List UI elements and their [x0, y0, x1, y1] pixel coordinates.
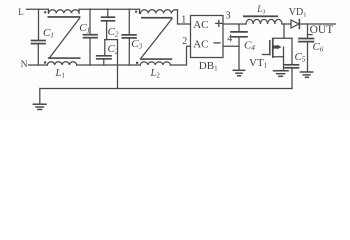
wire L1 diagonal: [50, 18, 80, 58]
diode VD1: [291, 20, 299, 28]
wire bridge pin 4: [223, 45, 239, 47]
polarity dot L2 top: [135, 11, 137, 13]
svg-text:L1: L1: [55, 68, 66, 80]
capacitor C1b (X-cap after choke): [89, 9, 91, 35]
wire N rail between chokes: [77, 64, 141, 66]
node OUT terminal: [308, 34, 313, 36]
source wire: [273, 57, 284, 71]
transformer L2 bottom winding: [140, 62, 170, 65]
wire L3 to diode anode: [282, 23, 291, 25]
ground (VT1 source): [274, 70, 289, 72]
wire N lead: [29, 64, 48, 66]
gate bar: [269, 41, 271, 55]
capacitor C5 (snubber cap): [291, 38, 293, 65]
svg-text:1: 1: [181, 15, 186, 26]
ground (bridge minus): [233, 69, 244, 71]
capacitor C4 (bus cap): [238, 24, 240, 32]
polarity dot L1 top: [44, 11, 46, 13]
svg-text:C2: C2: [108, 26, 119, 39]
capacitor C2b (lower Y-cap): [104, 40, 106, 56]
svg-text:4: 4: [227, 33, 232, 44]
wire earth rail (bottom): [40, 88, 292, 90]
polarity dot L2 bottom: [136, 62, 138, 64]
capacitor C2 (upper Y-cap): [107, 9, 109, 17]
wire diode cathode to OUT: [299, 23, 335, 25]
ground (mains earth): [39, 89, 41, 104]
wire N to bridge pin 2: [170, 46, 190, 65]
bridge rectifier DB1: [191, 16, 224, 58]
svg-text:L: L: [18, 7, 24, 17]
svg-text:C3: C3: [131, 38, 142, 51]
svg-text:VD1: VD1: [289, 7, 307, 19]
wire bridge pin 3 to L3: [223, 23, 246, 25]
transformer L2 (second common-mode choke, top winding): [140, 9, 191, 24]
svg-text:C1: C1: [79, 22, 90, 35]
minus sign: [214, 42, 220, 44]
svg-text:L3: L3: [256, 4, 265, 15]
capacitor C3 (second X-cap): [128, 9, 130, 35]
svg-text:2: 2: [182, 36, 187, 47]
polarity dot L1 bottom: [44, 61, 46, 63]
svg-text:AC: AC: [193, 19, 208, 31]
svg-text:N: N: [21, 60, 28, 70]
body-source join: [283, 47, 285, 57]
wire top rail between chokes: [79, 8, 139, 10]
svg-text:L2: L2: [150, 68, 161, 80]
capacitor C6 (output cap): [307, 24, 309, 39]
drain wire: [283, 24, 285, 38]
ground (output cap): [300, 71, 312, 73]
wire Y-cap midpoint: [105, 39, 118, 41]
core bar L1 top: [48, 16, 81, 18]
svg-text:VT1: VT1: [249, 57, 268, 70]
plus sign: [216, 20, 222, 26]
core bar L2 bottom: [140, 58, 173, 60]
svg-text:C4: C4: [244, 40, 255, 53]
svg-text:OUT: OUT: [310, 24, 334, 36]
gate lead: [263, 54, 270, 56]
svg-text:AC: AC: [193, 39, 208, 51]
drain/snubber tap wire: [273, 37, 293, 39]
svg-text:C1: C1: [43, 27, 54, 40]
capacitor C1 (left X-cap): [38, 9, 40, 40]
svg-text:DB1: DB1: [199, 60, 218, 73]
transformer L1 bottom winding: [47, 62, 76, 65]
core bar L2 top: [141, 17, 172, 19]
core bar L3: [243, 15, 278, 17]
wire L2 diagonal: [141, 19, 172, 58]
wire L lead: [27, 8, 49, 10]
wire earth riser from Y-cap midpoint: [117, 40, 119, 89]
core bar L1 bottom: [48, 57, 81, 59]
svg-text:3: 3: [226, 11, 231, 22]
channel bar: [272, 39, 274, 57]
transformer L1 (common-mode choke, top winding): [48, 9, 79, 13]
inductor L3 (boost inductor): [246, 19, 282, 24]
svg-text:C5: C5: [295, 51, 306, 64]
body arrow: [273, 45, 278, 48]
svg-text:C6: C6: [313, 41, 324, 54]
